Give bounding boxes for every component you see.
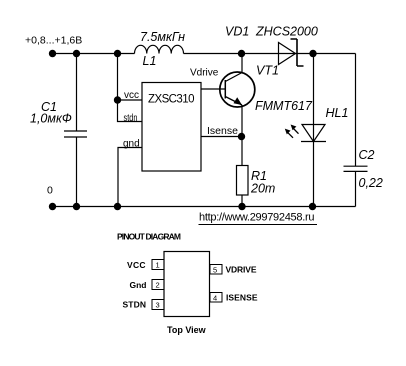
node 0 terminal: [49, 203, 56, 210]
svg-text:L1: L1: [143, 54, 157, 68]
inductor L1: [135, 45, 184, 53]
wire C1 branch bottom: [76, 137, 78, 207]
svg-text:FMMT617: FMMT617: [255, 99, 313, 113]
svg-text:stdn: stdn: [124, 113, 138, 124]
node positive supply terminal: [49, 50, 56, 57]
wire vcc to stdn pin: [118, 100, 143, 122]
pin 4 box: [210, 293, 222, 303]
svg-text:0,22: 0,22: [359, 176, 383, 190]
wire rail to vcc pin: [118, 54, 143, 101]
LED arrows: [287, 128, 299, 138]
svg-text:ISENSE: ISENSE: [226, 293, 258, 303]
svg-text:VCC: VCC: [127, 260, 146, 270]
resistor R1: [237, 166, 249, 196]
svg-text:ZXSC310: ZXSC310: [148, 94, 195, 106]
capacitor C2: [344, 166, 368, 171]
wire top rail mid: [184, 53, 356, 55]
svg-text:PINOUT DIAGRAM: PINOUT DIAGRAM: [117, 232, 181, 242]
svg-text:Top View: Top View: [167, 325, 207, 335]
svg-text:20m: 20m: [250, 182, 275, 196]
DIP package body: [164, 252, 210, 317]
diode VD1 schottky cathode bar: [291, 39, 304, 66]
wire R1 to rail: [241, 195, 243, 207]
svg-text:3: 3: [156, 301, 160, 310]
svg-text:HL1: HL1: [326, 106, 349, 120]
svg-text:ZHCS2000: ZHCS2000: [255, 25, 318, 39]
junction vcc rail: [114, 50, 121, 57]
pin 1 box: [152, 260, 164, 270]
svg-text:vcc: vcc: [124, 90, 139, 101]
junction C1 top: [73, 50, 80, 57]
wire C2 to rail: [355, 171, 357, 206]
link underline: [199, 224, 318, 226]
pin 2 box: [152, 280, 164, 290]
pin 3 box: [152, 300, 164, 310]
junction vcc pin: [114, 96, 121, 103]
junction collector / VD1 anode: [238, 50, 245, 57]
svg-text:Gnd: Gnd: [130, 280, 147, 290]
svg-text:VT1: VT1: [256, 64, 279, 78]
junction gnd rail: [114, 203, 121, 210]
IC ZXSC310 body: [142, 83, 201, 172]
diode VD1 triangle: [279, 43, 296, 65]
wire Vdrive: [201, 88, 225, 90]
svg-text:http://www.299792458.ru: http://www.299792458.ru: [199, 212, 315, 224]
wire C1 branch top: [76, 54, 78, 132]
emitter arrow head: [234, 97, 243, 105]
svg-text:Isense: Isense: [207, 125, 238, 137]
junction Isense / emitter: [238, 133, 245, 140]
svg-text:C2: C2: [359, 148, 375, 162]
junction HL1 top: [309, 50, 316, 57]
svg-text:1,0мкФ: 1,0мкФ: [30, 112, 72, 126]
wire collector: [225, 54, 242, 82]
svg-text:Vdrive: Vdrive: [190, 68, 219, 79]
LED HL1: [301, 125, 326, 142]
svg-text:VD1: VD1: [225, 25, 249, 39]
svg-text:+0,8...+1,6В: +0,8...+1,6В: [25, 35, 82, 47]
junction R1 bottom: [238, 203, 245, 210]
svg-text:2: 2: [156, 281, 160, 290]
svg-text:7.5мкГн: 7.5мкГн: [140, 30, 185, 44]
svg-text:0: 0: [47, 185, 53, 197]
junction C1 bottom: [73, 203, 80, 210]
capacitor C1: [64, 131, 87, 137]
svg-text:5: 5: [213, 266, 217, 275]
transistor VT1: [220, 72, 255, 107]
svg-text:1: 1: [156, 261, 160, 270]
svg-text:gnd: gnd: [123, 139, 140, 150]
wire LED branch: [313, 54, 315, 207]
wire top rail left: [53, 53, 135, 55]
wire gnd: [118, 148, 142, 207]
svg-text:STDN: STDN: [123, 300, 147, 310]
wire C2 branch: [355, 54, 357, 167]
wire emitter to R1: [241, 105, 243, 166]
junction HL1 bottom: [309, 203, 316, 210]
svg-text:VDRIVE: VDRIVE: [226, 265, 257, 275]
wire Isense: [201, 136, 242, 138]
wire bottom rail: [53, 206, 356, 208]
pin 5 box: [210, 265, 222, 275]
svg-text:4: 4: [213, 294, 217, 303]
